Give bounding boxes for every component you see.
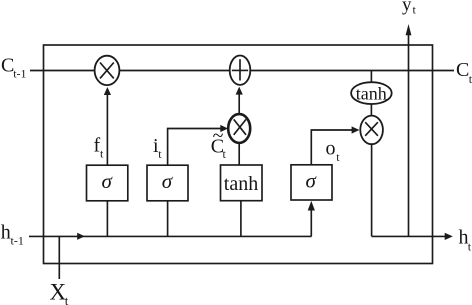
wire C line [30, 70, 454, 72]
svg-text:t: t [158, 147, 162, 161]
svg-text:h: h [1, 222, 11, 244]
wire sigma1 bottom connector [106, 201, 108, 236]
svg-text:σ: σ [306, 169, 318, 193]
svg-text:C: C [456, 59, 469, 81]
wire sigma3 bottom connector [310, 204, 312, 236]
wire multiply3 down to h output [371, 144, 373, 236]
wire h input line [29, 235, 312, 237]
sigma box 2 (input gate) [147, 165, 188, 201]
multiply gate 3 (output) [360, 116, 383, 145]
tanh ellipse [351, 82, 392, 104]
wire multiply2 to add [238, 90, 240, 115]
svg-text:tanh: tanh [224, 173, 258, 195]
svg-text:t: t [223, 147, 227, 161]
svg-text:t: t [336, 150, 340, 164]
svg-text:t-1: t-1 [11, 234, 24, 248]
arrowhead into multiply2 [220, 125, 228, 132]
svg-text:tanh: tanh [356, 84, 387, 104]
X in multiply 1 [100, 63, 114, 79]
svg-text:t: t [468, 240, 472, 254]
tanh box (candidate) [221, 165, 263, 201]
wire tanh box to multiply2 [238, 142, 240, 165]
add gate [230, 55, 251, 84]
svg-text:σ: σ [162, 169, 174, 193]
arrowhead on h input line [77, 233, 85, 240]
wire tanh box bottom connector [240, 201, 242, 236]
arrowhead y_t output [406, 24, 412, 35]
plus in add gate [239, 59, 241, 80]
svg-text:t-1: t-1 [13, 67, 26, 81]
X in multiply 2 [234, 119, 246, 134]
svg-text:o: o [326, 138, 336, 160]
wire sigma1 to multiply1 [106, 90, 108, 165]
svg-text:t: t [65, 293, 69, 305]
wire sigma2 to multiply2 [168, 129, 224, 166]
svg-text:t: t [413, 3, 417, 17]
arrowhead into sigma3 bottom [308, 201, 315, 211]
multiply gate 2 (input, bold) [228, 114, 250, 143]
svg-text:t: t [100, 147, 104, 161]
wire y output line [408, 31, 410, 236]
arrowhead into multiply3 [352, 126, 360, 133]
wire C line branch to tanh ellipse [370, 71, 372, 83]
svg-text:σ: σ [102, 169, 114, 193]
svg-text:~: ~ [213, 125, 224, 147]
cell boundary box [44, 45, 433, 264]
sigma box 3 (output gate) [291, 165, 332, 200]
arrowhead into sigma1->multiply1 [104, 87, 111, 95]
svg-text:y: y [402, 0, 412, 16]
wire sigma3 to multiply3 [311, 130, 355, 165]
multiply gate 1 (forget) [95, 56, 120, 85]
wire tanh ellipse to multiply3 [370, 104, 372, 116]
X in multiply 3 [365, 122, 378, 136]
wire X_t input [58, 236, 60, 279]
arrowhead h_t output [445, 233, 453, 240]
arrowhead multiply2 into add [236, 87, 243, 95]
wire h output line [372, 235, 446, 237]
sigma box 1 (forget gate) [87, 165, 128, 201]
wire sigma2 bottom connector [167, 201, 169, 236]
